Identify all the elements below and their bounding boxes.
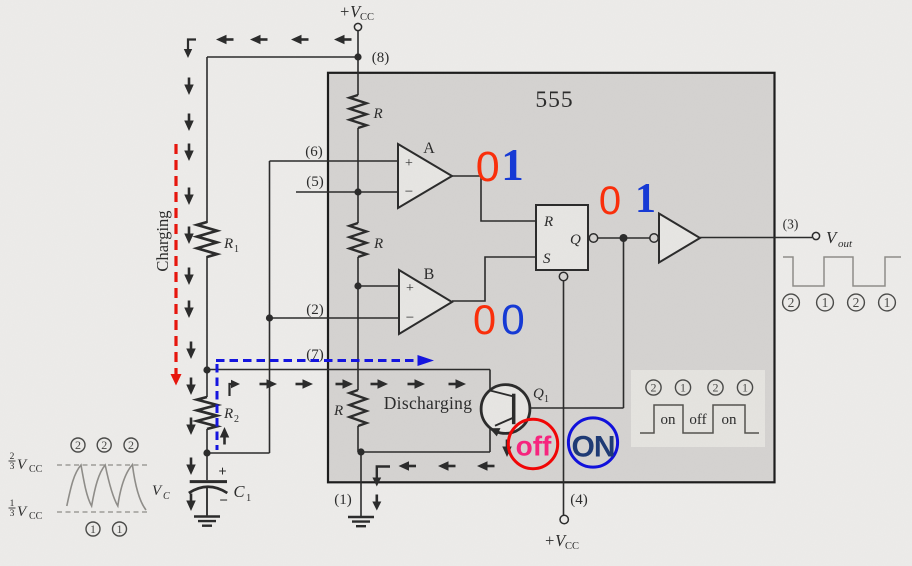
svg-text:C: C: [234, 482, 246, 501]
svg-text:1: 1: [680, 381, 686, 395]
svg-text:(5): (5): [306, 174, 324, 190]
svg-text:555: 555: [535, 87, 573, 113]
svg-text:off: off: [689, 412, 706, 428]
svg-text:out: out: [838, 238, 853, 250]
svg-text:+V: +V: [339, 2, 362, 21]
svg-text:(6): (6): [305, 144, 323, 160]
svg-text:−: −: [405, 184, 413, 200]
svg-text:on: on: [661, 412, 677, 428]
svg-text:1: 1: [90, 522, 96, 536]
svg-text:+: +: [218, 464, 226, 480]
svg-text:−: −: [219, 493, 228, 509]
svg-text:0: 0: [476, 143, 500, 191]
svg-text:1: 1: [884, 295, 891, 310]
svg-text:2: 2: [713, 381, 719, 395]
svg-text:R: R: [223, 406, 233, 422]
svg-text:2: 2: [853, 295, 860, 310]
svg-text:2: 2: [101, 438, 107, 452]
svg-text:R: R: [373, 236, 383, 252]
svg-text:Discharging: Discharging: [384, 393, 473, 413]
svg-text:R: R: [543, 214, 553, 230]
svg-text:on: on: [722, 412, 738, 428]
svg-text:+: +: [406, 281, 414, 296]
svg-text:1: 1: [544, 394, 549, 405]
svg-text:ON: ON: [572, 431, 615, 464]
svg-text:0: 0: [599, 179, 621, 223]
svg-text:1: 1: [10, 499, 15, 509]
svg-text:0: 0: [501, 297, 525, 344]
svg-text:1: 1: [501, 140, 524, 190]
svg-text:−: −: [406, 310, 414, 326]
svg-text:(4): (4): [570, 492, 588, 508]
svg-text:2: 2: [75, 438, 81, 452]
svg-text:(2): (2): [306, 302, 324, 318]
svg-text:(1): (1): [334, 492, 352, 508]
svg-text:1: 1: [822, 295, 829, 310]
svg-text:1: 1: [742, 381, 748, 395]
svg-text:2: 2: [651, 381, 657, 395]
svg-text:3: 3: [10, 509, 15, 519]
svg-text:2: 2: [788, 295, 795, 310]
svg-text:R: R: [373, 106, 383, 122]
svg-text:CC: CC: [29, 464, 43, 475]
svg-text:+V: +V: [544, 531, 567, 550]
svg-text:1: 1: [246, 493, 251, 504]
svg-text:1: 1: [635, 176, 656, 222]
svg-text:+: +: [405, 156, 413, 171]
svg-text:R: R: [223, 236, 233, 252]
svg-text:Charging: Charging: [153, 210, 172, 271]
svg-text:C: C: [163, 491, 170, 502]
svg-text:1: 1: [117, 522, 123, 536]
svg-text:Q: Q: [570, 232, 581, 248]
svg-text:S: S: [543, 251, 551, 267]
svg-text:(3): (3): [783, 217, 799, 232]
svg-text:B: B: [424, 266, 435, 283]
svg-text:0: 0: [473, 296, 496, 343]
svg-text:Q: Q: [533, 386, 544, 402]
svg-text:A: A: [423, 140, 435, 157]
svg-text:CC: CC: [565, 541, 579, 552]
svg-text:2: 2: [128, 438, 134, 452]
svg-text:(8): (8): [372, 50, 390, 66]
svg-text:off: off: [516, 431, 552, 462]
svg-text:3: 3: [10, 462, 15, 472]
svg-text:CC: CC: [360, 12, 374, 23]
svg-text:R: R: [333, 403, 343, 419]
svg-text:2: 2: [10, 452, 15, 462]
svg-text:1: 1: [234, 244, 239, 255]
svg-text:CC: CC: [29, 511, 43, 522]
svg-text:2: 2: [234, 414, 239, 425]
